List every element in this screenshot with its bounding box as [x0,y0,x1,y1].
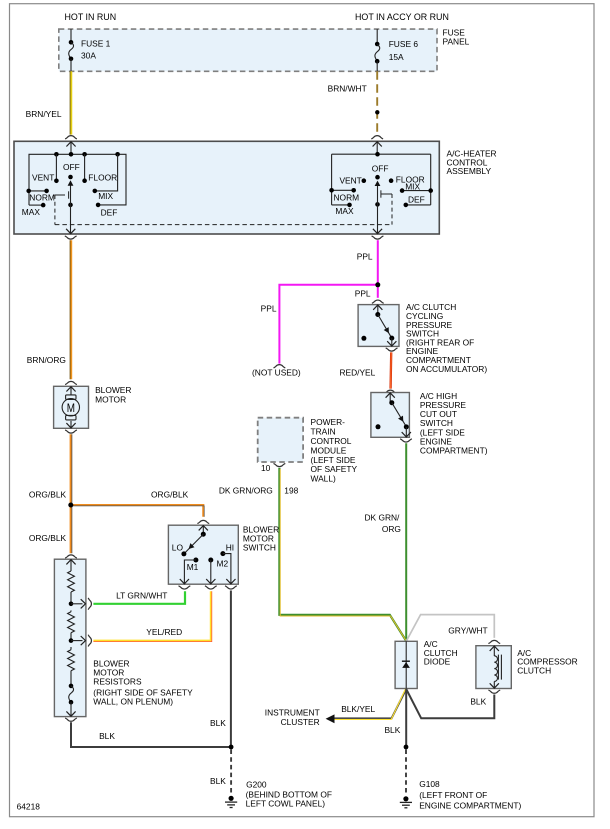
A/C compressor clutch box [476,646,511,689]
left switch NORM contact [26,189,48,194]
right switch output wire to box bottom [373,204,382,234]
wire BRN/WHT fuse6 to control assembly (dashed) [328,71,378,134]
svg-text:NORM: NORM [29,193,55,203]
left mode switch entry arrow [66,141,75,154]
fuse F1 30A [69,29,111,71]
svg-text:ORG/BLK: ORG/BLK [29,533,67,543]
svg-text:ORG: ORG [382,524,401,534]
svg-text:MIX: MIX [405,182,420,192]
svg-text:BLK/YEL: BLK/YEL [341,704,375,714]
wire LT GRN/WHT tap1 to switch [93,590,185,604]
right switch mechanical link [381,190,392,224]
right mode switch entry arrow [373,141,382,154]
svg-text:RESISTORS: RESISTORS [93,677,142,687]
junction node on PPL [375,282,380,287]
right switch DEF contact [404,203,431,208]
wire GRY/WHT diode to compressor clutch [406,615,494,642]
right switch MAX contact [332,203,352,208]
svg-text:LEFT COWL PANEL): LEFT COWL PANEL) [246,799,326,809]
ground G200 [225,796,237,808]
svg-text:ENGINE COMPARTMENT): ENGINE COMPARTMENT) [419,800,521,810]
connector at cycling switch top [372,300,384,303]
svg-text:WALL, ON PLENUM): WALL, ON PLENUM) [93,697,173,707]
wire BRN/ORG control assembly to blower motor [27,240,72,379]
wire BLK/YEL to instrument cluster [333,689,406,720]
right switch VENT contact dot [362,178,367,183]
fuse panel box [59,29,437,71]
right mode switch bus [332,154,431,205]
wire YEL/RED tap2 to switch [93,591,211,641]
mechanical linkage dashed bus [55,224,392,226]
svg-text:HI: HI [226,542,234,552]
wire BLK dashed to G108 [405,750,407,794]
label G200 [246,780,332,809]
label BLOWER MOTOR RESISTORS [93,659,193,707]
right switch wiper [375,181,381,207]
blower motor symbol [62,386,79,428]
high pressure switch internals [376,393,411,438]
svg-text:DIODE: DIODE [424,657,451,667]
svg-text:RED/YEL: RED/YEL [339,368,375,378]
blower motor switch box [168,525,238,584]
blower motor box [54,386,89,428]
svg-text:ON ACCUMULATOR): ON ACCUMULATOR) [406,364,487,374]
svg-text:10: 10 [261,463,271,473]
svg-text:VENT: VENT [32,172,54,182]
connector at control assembly bottom right [372,236,384,239]
A/C clutch diode box [395,641,417,688]
svg-text:ORG/BLK: ORG/BLK [29,490,67,500]
wire BLK from blower switch HI exit [210,591,231,748]
connector at control assembly top left [65,136,77,139]
right switch MIX contact [400,188,433,193]
left switch MAX contact dot [41,203,46,208]
svg-text:INSTRUMENT: INSTRUMENT [265,707,320,717]
svg-text:DEF: DEF [408,194,425,204]
svg-text:DK GRN/ORG: DK GRN/ORG [219,485,273,495]
svg-text:PPL: PPL [357,251,373,261]
svg-text:(NOT USED): (NOT USED) [252,368,301,378]
svg-text:FUSE 1: FUSE 1 [81,38,111,48]
junction node ORG/BLK [68,503,73,508]
svg-text:MIX: MIX [98,191,113,201]
svg-text:BLK: BLK [99,731,115,741]
svg-text:G108: G108 [419,779,440,789]
svg-text:BLK: BLK [210,776,226,786]
svg-text:YEL/RED: YEL/RED [146,627,182,637]
wire ORG/BLK branch to blower motor switch [71,490,204,517]
svg-text:CLUTCH: CLUTCH [517,666,551,676]
svg-text:ASSEMBLY: ASSEMBLY [447,166,492,176]
junction dot on BRN/WHT [375,110,379,114]
connector at blower resistors top [65,555,77,558]
connector at blower motor switch top [197,520,209,523]
svg-text:198: 198 [284,485,298,495]
wire BLK dashed to G200 [210,750,231,794]
label A/C CLUTCH DIODE [424,639,458,667]
label A/C CLUTCH CYCLING PRESSURE SWITCH [406,302,487,374]
right switch FLOOR contact dot [389,178,394,183]
label G108 [419,779,521,810]
svg-text:HOT IN ACCY OR RUN: HOT IN ACCY OR RUN [355,12,449,22]
connector at switch exit M1 [179,586,191,589]
wire BRN/YEL fuse1 to control assembly [26,71,72,134]
svg-text:M2: M2 [217,559,229,569]
svg-text:MAX: MAX [22,207,41,217]
left switch VENT contact [54,154,59,183]
svg-text:LT GRN/WHT: LT GRN/WHT [116,590,167,600]
label POWER-TRAIN CONTROL MODULE [311,417,358,483]
connector at control assembly top right [371,136,383,139]
svg-text:BLK: BLK [470,697,486,707]
left switch OFF contact dot [68,175,73,180]
wire ORG/BLK blower motor down to resistors [29,434,72,553]
connector at tap 1 [88,598,91,610]
svg-text:MOTOR: MOTOR [95,395,126,405]
left switch DEF contact dot [96,203,101,208]
svg-text:SWITCH: SWITCH [243,543,276,553]
A/C high pressure cut out switch box [371,393,410,438]
svg-text:OFF: OFF [63,162,80,172]
right switch bus dot [375,152,380,157]
connector at compressor clutch top [488,640,500,643]
connector at high pressure switch top [385,390,397,393]
svg-text:64218: 64218 [17,802,41,812]
svg-text:OFF: OFF [372,164,389,174]
svg-text:WALL): WALL) [311,474,336,484]
svg-text:NORM: NORM [334,193,360,203]
blower motor switch internals [180,525,236,584]
svg-text:VENT: VENT [339,175,361,185]
connector at resistors bottom [65,718,77,721]
svg-text:FUSE 6: FUSE 6 [389,39,419,49]
svg-text:DEF: DEF [101,208,118,218]
arrow to instrument cluster [326,714,335,723]
wire BLK from resistors bottom [71,722,231,747]
blower motor resistors box [54,559,86,716]
left switch FLOOR contact [82,154,87,183]
svg-text:30A: 30A [81,50,96,60]
svg-text:PANEL: PANEL [443,37,470,47]
wire PPL from control assembly [377,240,379,298]
resistor tap 2 arrow [71,636,86,645]
A/C clutch cycling pressure switch box [358,305,399,347]
connector at PCM pin 10 [274,463,286,466]
wire BLK diode to G108 [384,689,406,747]
connector at switch exit M2 [205,586,217,589]
wire PPL branch to not used [261,285,378,364]
wire DK GRN/ORG from high pressure switch to diode [364,443,406,641]
right switch OFF contact dot [375,175,380,180]
label A/C HIGH PRESSURE CUT OUT SWITCH [420,391,488,456]
svg-text:CLUSTER: CLUSTER [281,717,320,727]
svg-text:BRN/YEL: BRN/YEL [26,109,62,119]
resistor tap 1 arrow [71,599,86,608]
svg-text:GRY/WHT: GRY/WHT [448,626,487,636]
svg-text:BLK: BLK [384,725,400,735]
svg-text:BLK: BLK [210,718,226,728]
connector (NOT USED) [252,365,301,378]
svg-text:ORG/BLK: ORG/BLK [151,490,189,500]
compressor clutch coil internals [490,646,502,689]
svg-text:PPL: PPL [355,289,371,299]
junction node BLK at G200 [229,745,234,750]
left switch wiper [68,180,74,207]
svg-text:M1: M1 [187,562,199,572]
svg-text:G200: G200 [246,780,267,790]
connector at blower motor bottom [65,430,77,433]
label A/C COMPRESSOR CLUTCH [517,648,578,676]
label INSTRUMENT CLUSTER [265,707,320,727]
left switch bus dots [54,152,59,157]
connector at blower motor top [65,381,77,384]
connector at switch exit HI [225,586,237,589]
svg-text:M: M [67,402,75,415]
svg-text:BLOWER: BLOWER [95,385,131,395]
connector at compressor clutch bottom [488,690,500,693]
svg-text:FLOOR: FLOOR [88,172,117,182]
svg-text:BRN/ORG: BRN/ORG [27,355,66,365]
svg-text:DK GRN/: DK GRN/ [364,512,400,522]
connector at tap 2 [88,635,91,647]
svg-text:PPL: PPL [261,303,277,313]
diode internals [402,641,410,688]
left mode switch bus [29,154,126,205]
fuse F6 15A [375,29,418,71]
svg-text:(LEFT FRONT OF: (LEFT FRONT OF [419,790,487,800]
wire BLK compressor clutch to diode [406,689,494,718]
cycling switch internals [361,305,396,347]
resistors internals [66,559,75,716]
wire RED/YEL [339,352,391,388]
left switch MIX contact [93,154,118,193]
svg-text:LO: LO [172,542,184,552]
A/C-heater control assembly box [14,141,439,234]
connector at high pressure switch bottom [400,439,412,442]
svg-text:COMPARTMENT): COMPARTMENT) [420,446,488,456]
svg-text:15A: 15A [389,52,404,62]
right switch NORM contact [329,188,356,193]
connector at control assembly bottom left [65,236,77,239]
left switch mechanical link [54,191,68,224]
left switch output wire to box bottom [66,205,75,234]
ground G108 [400,796,412,808]
junction node BLK at G108 [404,745,409,750]
connector at cycling switch bottom [386,348,398,351]
svg-text:BRN/WHT: BRN/WHT [328,84,367,94]
svg-text:MAX: MAX [335,206,354,216]
powertrain control module box [258,418,303,462]
svg-text:HOT IN RUN: HOT IN RUN [65,12,117,22]
wire DK GRN/ORG circuit 198 from PCM to diode [219,468,407,642]
